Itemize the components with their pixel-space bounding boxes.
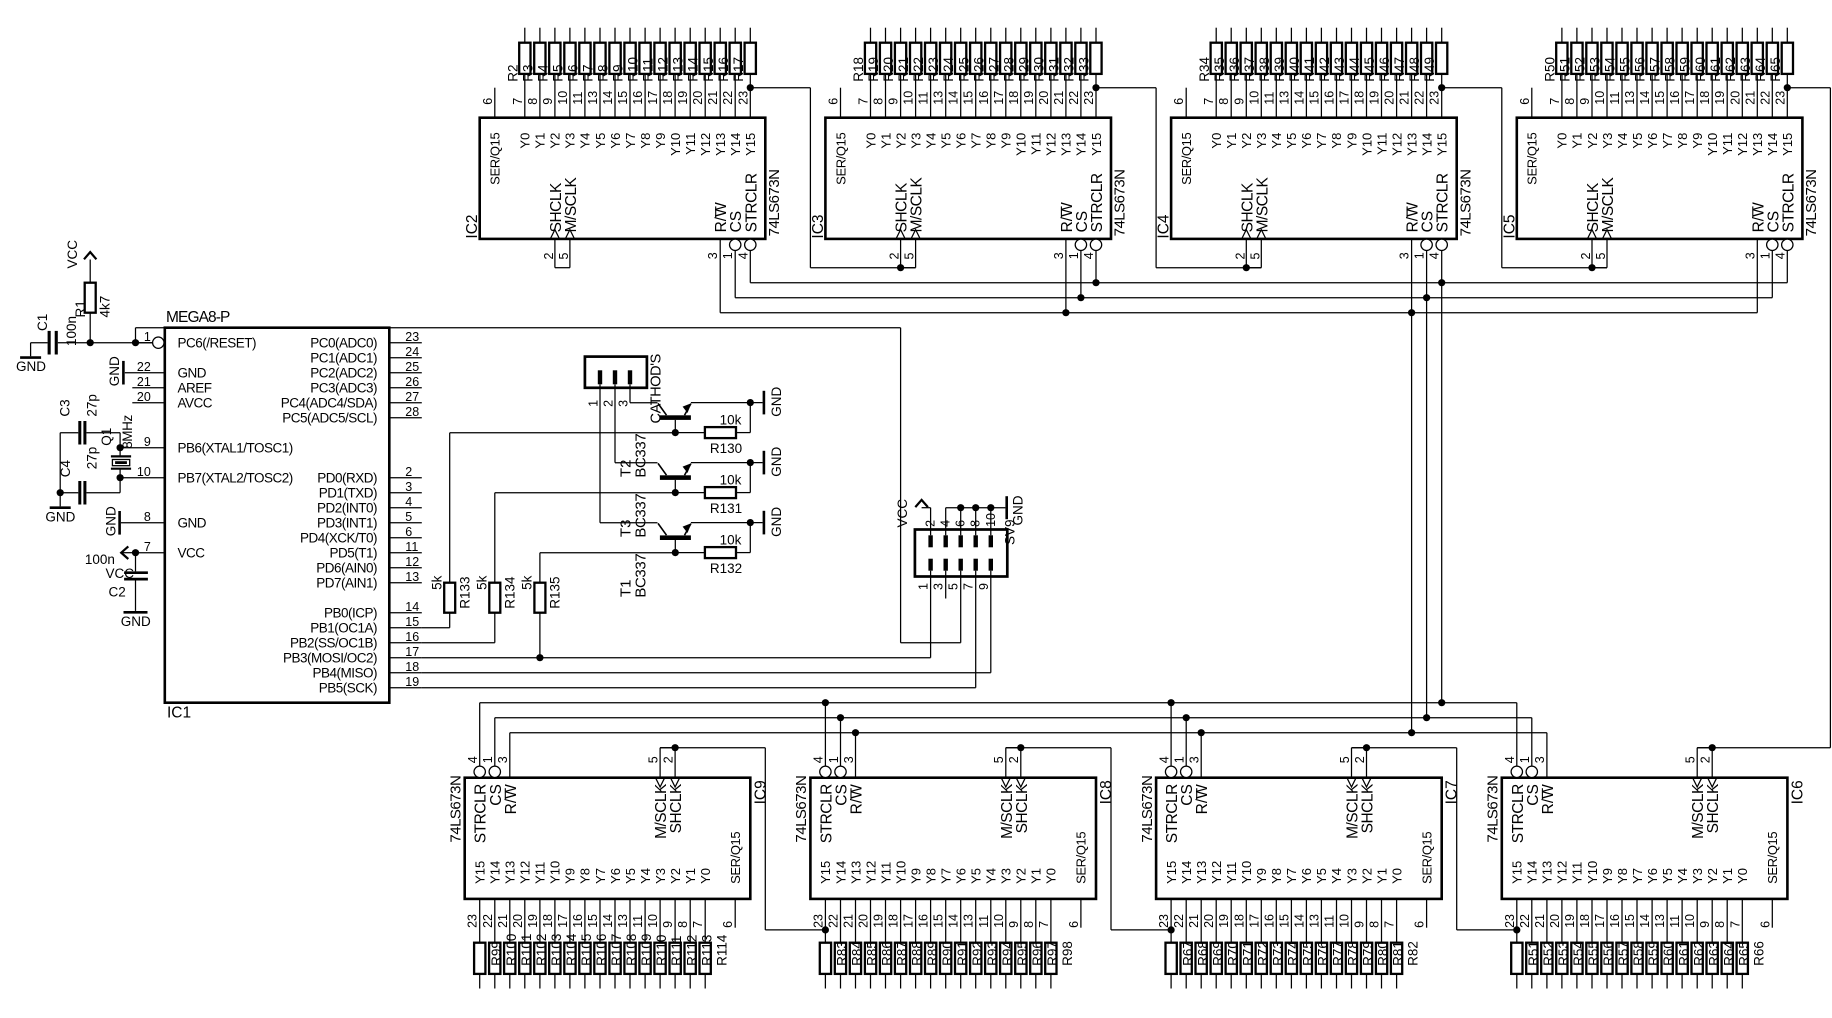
resistor R5 bbox=[564, 43, 575, 74]
svg-text:15: 15 bbox=[616, 91, 630, 105]
svg-text:Y6: Y6 bbox=[954, 133, 969, 149]
IC5 pin 9 Y2 wire bbox=[1591, 74, 1593, 118]
IC1 pin 16 PB2(SS/OC1B) bbox=[389, 642, 422, 644]
svg-text:4: 4 bbox=[812, 756, 826, 763]
svg-text:Y2: Y2 bbox=[1239, 133, 1254, 149]
wire CS top bus bbox=[735, 297, 1772, 299]
svg-text:R31: R31 bbox=[1047, 57, 1062, 82]
svg-text:Y8: Y8 bbox=[1615, 868, 1630, 884]
resistor R4 bbox=[549, 43, 560, 74]
svg-text:4: 4 bbox=[405, 495, 412, 509]
svg-text:Y3: Y3 bbox=[1690, 868, 1705, 884]
CATHOD'S pin 3 bbox=[628, 370, 632, 384]
resistor R108 bbox=[609, 943, 620, 974]
svg-text:R29: R29 bbox=[1016, 57, 1031, 82]
svg-text:Y2: Y2 bbox=[893, 133, 908, 149]
svg-text:1: 1 bbox=[721, 252, 735, 259]
svg-text:SHCLK: SHCLK bbox=[1705, 783, 1722, 833]
wire IC1 pin19 SCK to SV9 pin7 bbox=[422, 687, 976, 689]
IC5 pin 7 Y0 wire bbox=[1561, 74, 1563, 118]
svg-text:R57: R57 bbox=[1648, 57, 1663, 82]
svg-text:24: 24 bbox=[405, 345, 419, 359]
svg-text:21: 21 bbox=[842, 914, 856, 928]
svg-text:3: 3 bbox=[616, 400, 630, 407]
IC7 pin 4 STRCLR bbox=[1165, 766, 1176, 777]
IC5 clock tie wire bbox=[1592, 267, 1607, 269]
svg-text:PC0(ADC0): PC0(ADC0) bbox=[310, 335, 377, 350]
svg-text:8: 8 bbox=[1368, 921, 1382, 928]
svg-text:Y3: Y3 bbox=[653, 868, 668, 884]
resistor R51 bbox=[1571, 43, 1582, 74]
resistor R57 bbox=[1601, 943, 1612, 974]
svg-text:Y11: Y11 bbox=[878, 862, 893, 884]
wire T3 emitter to ground bbox=[691, 462, 763, 464]
svg-text:R58: R58 bbox=[1631, 941, 1646, 966]
svg-text:R81: R81 bbox=[1391, 941, 1406, 966]
svg-text:13: 13 bbox=[1623, 91, 1637, 105]
IC8 pin 6 SER/Q15 bbox=[1080, 899, 1082, 928]
IC6 pin 5 M/SCLK bbox=[1696, 748, 1698, 778]
resistor R6 bbox=[579, 43, 590, 74]
IC4 pin 6 SER/Q15 bbox=[1185, 88, 1187, 118]
svg-text:PD6(AIN0): PD6(AIN0) bbox=[316, 560, 377, 575]
svg-text:Y7: Y7 bbox=[969, 133, 984, 149]
IC1 pin 7 VCC bbox=[136, 552, 165, 554]
resistor R87 bbox=[880, 943, 891, 974]
svg-text:R62: R62 bbox=[1723, 57, 1738, 82]
svg-text:7: 7 bbox=[1037, 921, 1051, 928]
resistor R110 bbox=[639, 943, 650, 974]
IC1 pin 25 PC2(ADC2) bbox=[389, 372, 422, 374]
svg-text:18: 18 bbox=[887, 914, 901, 928]
IC8 pin 8 Y1 wire bbox=[1035, 899, 1037, 943]
svg-text:10: 10 bbox=[556, 91, 570, 105]
svg-text:1: 1 bbox=[586, 400, 600, 407]
svg-text:23: 23 bbox=[1082, 91, 1096, 105]
svg-text:20: 20 bbox=[1037, 91, 1051, 105]
svg-text:19: 19 bbox=[676, 91, 690, 105]
transistor T1 BC337 bbox=[660, 535, 691, 540]
resistor R79 bbox=[1346, 943, 1357, 974]
svg-text:M/SCLK: M/SCLK bbox=[563, 177, 580, 233]
svg-text:Y12: Y12 bbox=[1389, 133, 1404, 156]
IC2 pin 4 STRCLR bbox=[745, 239, 756, 250]
svg-text:Y15: Y15 bbox=[473, 861, 488, 884]
IC IC3 74LS673N box bbox=[825, 118, 1111, 239]
IC4 pin 18 Y10 wire bbox=[1366, 74, 1368, 118]
svg-text:R65: R65 bbox=[1768, 57, 1783, 82]
svg-text:Y15: Y15 bbox=[1510, 861, 1525, 884]
svg-text:14: 14 bbox=[601, 91, 615, 105]
svg-text:R94: R94 bbox=[1000, 941, 1015, 966]
wire T3 base line bbox=[495, 492, 675, 494]
svg-text:Y5: Y5 bbox=[1284, 133, 1299, 149]
svg-text:9: 9 bbox=[1698, 921, 1712, 928]
svg-text:22: 22 bbox=[137, 360, 151, 374]
svg-text:R134: R134 bbox=[503, 576, 518, 609]
svg-text:3: 3 bbox=[1533, 756, 1547, 763]
resistor R49 bbox=[1436, 43, 1447, 74]
IC4 pin 9 Y2 wire bbox=[1245, 74, 1247, 118]
wire IC1 pin16 to R134 bbox=[422, 642, 495, 644]
IC3 pin 3 R/W bbox=[1065, 239, 1067, 313]
resistor R17 bbox=[745, 43, 756, 74]
svg-text:3: 3 bbox=[932, 583, 946, 590]
IC4 pin 21 Y13 wire bbox=[1411, 74, 1413, 118]
IC4 pin 10 Y3 wire bbox=[1260, 74, 1262, 118]
svg-text:11: 11 bbox=[405, 540, 418, 554]
IC6 pin 1 CS bbox=[1526, 766, 1537, 777]
junction dots IC4 control pins on top buses bbox=[1408, 309, 1415, 316]
svg-text:1: 1 bbox=[481, 756, 495, 763]
svg-text:Y1: Y1 bbox=[878, 133, 893, 149]
IC9 pin 2 SHCLK bbox=[674, 748, 676, 778]
svg-text:15: 15 bbox=[1277, 914, 1291, 928]
svg-text:7: 7 bbox=[1202, 98, 1216, 105]
resistor R62 bbox=[1677, 943, 1688, 974]
resistor R47 bbox=[1406, 43, 1417, 74]
svg-text:R52: R52 bbox=[1573, 57, 1588, 82]
svg-text:R50: R50 bbox=[1543, 57, 1558, 82]
wire cascade Q15 to clocks bottom bbox=[1168, 926, 1175, 933]
resistor R132 10k bbox=[675, 552, 705, 554]
wire R/W vertical interconnect bbox=[1411, 313, 1413, 733]
svg-text:R23: R23 bbox=[926, 57, 941, 82]
IC6 pin 3 R/W bbox=[1546, 733, 1548, 778]
svg-text:IC9: IC9 bbox=[752, 780, 769, 804]
resistor R20 bbox=[895, 43, 906, 74]
connector SV9 box bbox=[915, 530, 1007, 577]
svg-text:GND: GND bbox=[769, 387, 784, 417]
svg-text:19: 19 bbox=[1217, 914, 1231, 928]
svg-text:20: 20 bbox=[691, 91, 705, 105]
IC6 pin 20 Y12 wire bbox=[1561, 899, 1563, 943]
wire R/W top bus bbox=[720, 312, 1757, 314]
resistor R29 bbox=[1030, 43, 1041, 74]
IC4 pin 7 Y0 wire bbox=[1215, 74, 1217, 118]
resistor R12 bbox=[670, 43, 681, 74]
SV9 pin 10 pad bbox=[989, 535, 993, 547]
resistor R21 bbox=[910, 43, 921, 74]
junction T2 emitter ground bbox=[747, 399, 754, 406]
svg-text:Y2: Y2 bbox=[668, 868, 683, 884]
IC8 pin 21 Y13 wire bbox=[855, 899, 857, 943]
svg-text:2: 2 bbox=[1353, 756, 1367, 763]
resistor R51 bbox=[1511, 943, 1522, 974]
resistor R105 bbox=[564, 943, 575, 974]
svg-text:7: 7 bbox=[1728, 921, 1742, 928]
svg-text:R66: R66 bbox=[1751, 941, 1766, 966]
svg-text:Y11: Y11 bbox=[1570, 862, 1585, 884]
resistor R39 bbox=[1286, 43, 1297, 74]
svg-text:Y8: Y8 bbox=[638, 133, 653, 149]
svg-text:R41: R41 bbox=[1302, 57, 1317, 82]
wire SV9 pin7 SCK bbox=[975, 571, 977, 688]
wire cascade Q15 to clocks bottom bbox=[1513, 926, 1520, 933]
resistor R55 bbox=[1571, 943, 1582, 974]
svg-text:GND: GND bbox=[16, 359, 46, 374]
svg-text:PB1(OC1A): PB1(OC1A) bbox=[310, 620, 377, 635]
resistor R102 bbox=[519, 943, 530, 974]
svg-text:R27: R27 bbox=[986, 57, 1001, 82]
svg-text:11: 11 bbox=[977, 915, 991, 928]
resistor R59 bbox=[1631, 943, 1642, 974]
IC3 pin 19 Y11 wire bbox=[1035, 74, 1037, 118]
resistor R52 bbox=[1526, 943, 1537, 974]
svg-text:R104: R104 bbox=[564, 933, 579, 966]
svg-text:Y6: Y6 bbox=[608, 868, 623, 884]
resistor R56 bbox=[1646, 43, 1657, 74]
IC3 pin 4 STRCLR bbox=[1090, 239, 1101, 250]
svg-text:Y4: Y4 bbox=[578, 133, 593, 149]
SV9 pin 6 pad bbox=[959, 535, 963, 547]
resistor R109 bbox=[624, 943, 635, 974]
IC7 clock tie wire bbox=[1352, 747, 1367, 749]
svg-text:Y13: Y13 bbox=[1194, 861, 1209, 884]
svg-text:Y6: Y6 bbox=[1299, 133, 1314, 149]
svg-text:20: 20 bbox=[1202, 914, 1216, 928]
resistor R70 bbox=[1211, 943, 1222, 974]
IC7 pin 5 M/SCLK bbox=[1351, 748, 1353, 778]
svg-text:18: 18 bbox=[1353, 91, 1367, 105]
IC6 pin 4 STRCLR bbox=[1511, 766, 1522, 777]
ground GND at crystal caps bbox=[59, 493, 61, 507]
svg-text:PD0(RXD): PD0(RXD) bbox=[317, 470, 377, 485]
resistor R84 bbox=[835, 943, 846, 974]
wire SV9 even pins to ground bbox=[946, 507, 1006, 509]
svg-text:R130: R130 bbox=[710, 441, 742, 456]
svg-text:Y9: Y9 bbox=[653, 133, 668, 149]
svg-text:9: 9 bbox=[144, 435, 151, 449]
svg-text:R26: R26 bbox=[971, 57, 986, 82]
svg-text:13: 13 bbox=[405, 570, 419, 584]
IC2 pin 2 SHCLK bbox=[554, 239, 556, 268]
svg-text:Y1: Y1 bbox=[683, 868, 698, 884]
svg-text:17: 17 bbox=[992, 91, 1006, 105]
IC2 pin 17 Y9 wire bbox=[659, 74, 661, 118]
svg-text:Y13: Y13 bbox=[1404, 133, 1419, 156]
resistor R46 bbox=[1391, 43, 1402, 74]
wire STRCLR bottom bus bbox=[480, 702, 1517, 704]
resistor R25 bbox=[970, 43, 981, 74]
resistor R28 bbox=[1015, 43, 1026, 74]
svg-text:SER/Q15: SER/Q15 bbox=[1179, 133, 1194, 185]
svg-text:3: 3 bbox=[1743, 252, 1757, 259]
svg-text:R24: R24 bbox=[941, 56, 956, 81]
svg-text:R16: R16 bbox=[716, 57, 731, 82]
resistor R67 bbox=[1166, 943, 1177, 974]
IC3 pin 23 Y15 wire bbox=[1095, 74, 1097, 118]
svg-text:Y6: Y6 bbox=[1645, 868, 1660, 884]
svg-text:R14: R14 bbox=[686, 56, 701, 81]
svg-text:14: 14 bbox=[1292, 914, 1306, 928]
resistor R45 bbox=[1376, 43, 1387, 74]
svg-text:Y5: Y5 bbox=[593, 133, 608, 149]
IC1 pin 6 PD4(XCK/T0) bbox=[389, 537, 422, 539]
IC IC4 74LS673N box bbox=[1171, 118, 1457, 239]
svg-text:74LS673N: 74LS673N bbox=[1139, 776, 1156, 843]
resistor R69 bbox=[1196, 943, 1207, 974]
IC6 pin 2 SHCLK bbox=[1711, 748, 1713, 778]
svg-text:VCC: VCC bbox=[65, 240, 80, 269]
svg-text:2: 2 bbox=[661, 756, 675, 763]
IC1 pin 28 PC5(ADC5/SCL) bbox=[389, 417, 422, 419]
svg-text:19: 19 bbox=[405, 675, 419, 689]
svg-text:R6: R6 bbox=[566, 64, 581, 81]
svg-text:Y6: Y6 bbox=[1645, 133, 1660, 149]
resistor R94 bbox=[985, 943, 996, 974]
IC9 pin 19 Y11 wire bbox=[539, 899, 541, 943]
IC1 pin 2 PD0(RXD) bbox=[389, 477, 422, 479]
svg-text:20: 20 bbox=[857, 914, 871, 928]
svg-text:R96: R96 bbox=[1030, 941, 1045, 966]
IC1 pin 5 PD3(INT1) bbox=[389, 522, 422, 524]
resistor R91 bbox=[940, 943, 951, 974]
svg-text:R18: R18 bbox=[851, 57, 866, 82]
IC1 pin 1 PC6(/RESET) bbox=[153, 337, 164, 348]
IC3 pin 10 Y3 wire bbox=[915, 74, 917, 118]
IC5 pin 10 Y3 wire bbox=[1606, 74, 1608, 118]
svg-text:1: 1 bbox=[917, 583, 931, 590]
svg-text:R93: R93 bbox=[985, 941, 1000, 966]
svg-text:Y0: Y0 bbox=[863, 133, 878, 149]
IC2 pin 20 Y12 wire bbox=[704, 74, 706, 118]
svg-text:Y7: Y7 bbox=[1284, 868, 1299, 884]
svg-text:23: 23 bbox=[736, 91, 750, 105]
svg-text:Y11: Y11 bbox=[1374, 133, 1389, 155]
svg-text:23: 23 bbox=[811, 914, 825, 928]
junction SV9 pin10 bbox=[987, 504, 994, 511]
wire IC1 pin17 MOSI to R135 and SV9 pin1 bbox=[422, 657, 931, 659]
svg-text:10: 10 bbox=[1683, 914, 1697, 928]
svg-text:R88: R88 bbox=[910, 941, 925, 966]
svg-text:25: 25 bbox=[405, 360, 419, 374]
IC8 pin 23 Y15 wire bbox=[824, 899, 826, 943]
junction T3 emitter ground bbox=[747, 459, 754, 466]
resistor R81 bbox=[1376, 943, 1387, 974]
svg-text:PB3(MOSI/OC2): PB3(MOSI/OC2) bbox=[283, 650, 377, 665]
svg-text:4: 4 bbox=[1428, 252, 1442, 259]
IC1 pin 3 PD1(TXD) bbox=[389, 492, 422, 494]
svg-text:R8: R8 bbox=[596, 64, 611, 81]
resistor R7 bbox=[594, 43, 605, 74]
svg-text:5: 5 bbox=[557, 253, 571, 260]
resistor R9 bbox=[624, 43, 635, 74]
svg-text:R46: R46 bbox=[1377, 57, 1392, 82]
resistor R60 bbox=[1707, 43, 1718, 74]
svg-text:R25: R25 bbox=[956, 57, 971, 82]
svg-text:4: 4 bbox=[1503, 756, 1517, 763]
svg-text:R56: R56 bbox=[1601, 941, 1616, 966]
resistor R113 bbox=[685, 943, 696, 974]
resistor R131 10k bbox=[675, 492, 705, 494]
IC1 pin 14 PB0(ICP) bbox=[389, 612, 422, 614]
svg-text:5: 5 bbox=[646, 756, 660, 763]
svg-text:Y15: Y15 bbox=[1164, 861, 1179, 884]
svg-text:Y7: Y7 bbox=[939, 868, 954, 884]
svg-text:M/SCLK: M/SCLK bbox=[1600, 177, 1617, 233]
resistor R55 bbox=[1631, 43, 1642, 74]
svg-text:R51: R51 bbox=[1526, 941, 1541, 966]
svg-text:PD3(INT1): PD3(INT1) bbox=[317, 515, 377, 530]
svg-text:Y0: Y0 bbox=[1555, 133, 1570, 149]
svg-text:7: 7 bbox=[1383, 921, 1397, 928]
IC2 pin 18 Y10 wire bbox=[674, 74, 676, 118]
svg-text:Y5: Y5 bbox=[1314, 868, 1329, 884]
svg-text:GND: GND bbox=[1011, 495, 1026, 525]
svg-text:R101: R101 bbox=[519, 934, 534, 966]
svg-text:15: 15 bbox=[962, 91, 976, 105]
resistor R134 5k bbox=[489, 583, 500, 613]
svg-text:Y8: Y8 bbox=[923, 868, 938, 884]
svg-text:8: 8 bbox=[1022, 921, 1036, 928]
IC3 pin 22 Y14 wire bbox=[1080, 74, 1082, 118]
svg-text:M/SCLK: M/SCLK bbox=[909, 177, 926, 233]
svg-text:R5: R5 bbox=[551, 64, 566, 81]
svg-text:PD5(T1): PD5(T1) bbox=[329, 545, 377, 560]
svg-text:SER/Q15: SER/Q15 bbox=[1765, 832, 1780, 884]
svg-text:17: 17 bbox=[646, 91, 660, 105]
IC1 pin 15 PB1(OC1A) bbox=[389, 627, 422, 629]
resistor R114 bbox=[700, 943, 711, 974]
svg-text:9: 9 bbox=[887, 98, 901, 105]
junction dots IC8 control pins on bottom buses bbox=[822, 699, 829, 706]
svg-text:2: 2 bbox=[542, 253, 556, 260]
svg-text:Y12: Y12 bbox=[698, 133, 713, 156]
svg-text:Y14: Y14 bbox=[1179, 861, 1194, 884]
wire cascade IC5 Q15 to IC6 clocks via right edge bbox=[1784, 84, 1791, 91]
svg-text:AREF: AREF bbox=[178, 380, 212, 395]
svg-text:16: 16 bbox=[571, 914, 585, 928]
resistor R33 bbox=[1090, 43, 1101, 74]
IC4 pin 23 Y15 wire bbox=[1441, 74, 1443, 118]
IC1 pin 10 PB7(XTAL2/TOSC2) bbox=[120, 477, 165, 479]
resistor R60 bbox=[1646, 943, 1657, 974]
resistor R56 bbox=[1586, 943, 1597, 974]
IC9 pin 4 STRCLR bbox=[474, 766, 485, 777]
svg-text:R20: R20 bbox=[881, 57, 896, 82]
svg-text:Y3: Y3 bbox=[1600, 133, 1615, 149]
svg-text:4k7: 4k7 bbox=[98, 296, 113, 318]
IC1 pin 12 PD6(AIN0) bbox=[389, 567, 422, 569]
svg-text:R64: R64 bbox=[1753, 56, 1768, 81]
ground GND at C2 bbox=[124, 611, 148, 614]
svg-text:SER/Q15: SER/Q15 bbox=[1074, 832, 1089, 884]
svg-text:15: 15 bbox=[932, 914, 946, 928]
IC1 pin 8 GND bbox=[121, 522, 165, 524]
svg-text:5: 5 bbox=[992, 756, 1006, 763]
IC5 pin 16 Y8 wire bbox=[1681, 74, 1683, 118]
IC7 pin 13 Y5 wire bbox=[1320, 899, 1322, 943]
IC IC9 74LS673N box bbox=[465, 778, 751, 899]
svg-text:2: 2 bbox=[1007, 756, 1021, 763]
svg-text:R53: R53 bbox=[1588, 57, 1603, 82]
svg-text:9: 9 bbox=[1578, 98, 1592, 105]
svg-text:R105: R105 bbox=[579, 934, 594, 966]
svg-text:22: 22 bbox=[1172, 914, 1186, 928]
svg-text:Y7: Y7 bbox=[1660, 133, 1675, 149]
IC6 pin 11 Y4 wire bbox=[1681, 899, 1683, 943]
IC7 pin 1 CS bbox=[1181, 766, 1192, 777]
resistor R35 bbox=[1226, 43, 1237, 74]
IC5 pin 6 SER/Q15 bbox=[1531, 88, 1533, 118]
IC2 pin 3 R/W bbox=[719, 239, 721, 313]
IC6 pin 15 Y7 wire bbox=[1636, 899, 1638, 943]
svg-text:14: 14 bbox=[1638, 91, 1652, 105]
wire T1 emitter to ground bbox=[691, 522, 763, 524]
IC6 pin 14 Y6 wire bbox=[1651, 899, 1653, 943]
svg-text:SHCLK: SHCLK bbox=[668, 783, 685, 833]
